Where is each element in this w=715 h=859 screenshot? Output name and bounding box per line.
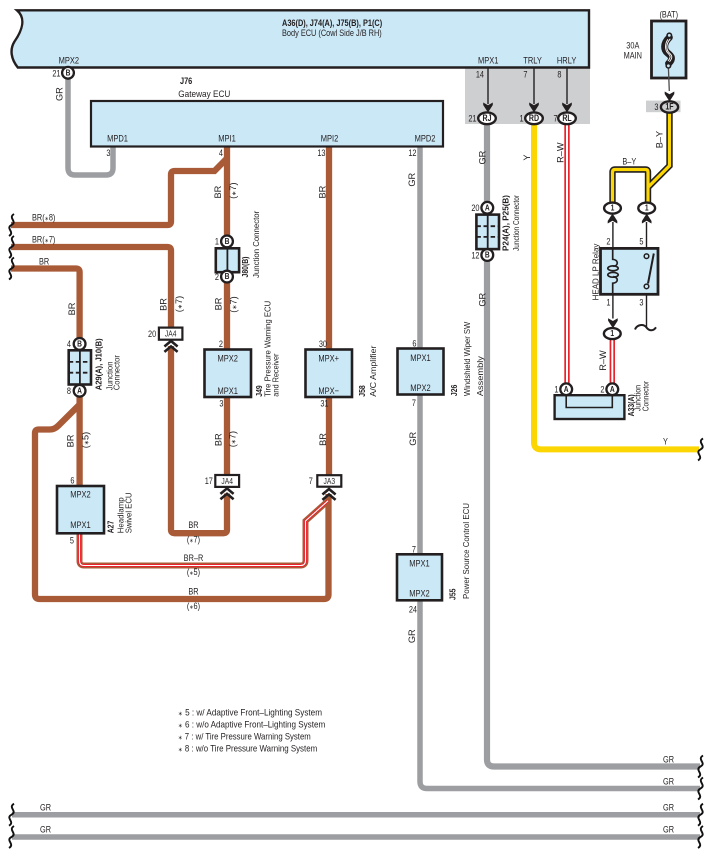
svg-text:7: 7 bbox=[412, 397, 416, 408]
svg-text:∗ 8 : w/o Tire Pressure Warnin: ∗ 8 : w/o Tire Pressure Warning System bbox=[178, 744, 318, 754]
svg-text:8: 8 bbox=[67, 385, 71, 396]
svg-text:BR: BR bbox=[213, 185, 223, 198]
svg-text:TRLY: TRLY bbox=[523, 55, 542, 66]
svg-text:(∗5): (∗5) bbox=[187, 566, 200, 577]
svg-text:BR(∗7): BR(∗7) bbox=[32, 234, 56, 245]
svg-text:A27: A27 bbox=[106, 521, 116, 534]
svg-text:MPX2: MPX2 bbox=[59, 55, 80, 66]
svg-text:6: 6 bbox=[412, 338, 416, 349]
svg-text:3: 3 bbox=[106, 147, 110, 158]
svg-text:A: A bbox=[77, 386, 82, 396]
svg-text:Swivel ECU: Swivel ECU bbox=[124, 492, 134, 533]
svg-text:BR: BR bbox=[66, 434, 76, 447]
svg-text:BR: BR bbox=[214, 433, 224, 446]
svg-text:A: A bbox=[610, 384, 615, 394]
svg-text:A: A bbox=[485, 203, 490, 213]
svg-text:BR: BR bbox=[158, 298, 168, 311]
svg-text:J80(B): J80(B) bbox=[240, 256, 250, 277]
svg-text:7: 7 bbox=[554, 112, 558, 123]
svg-text:JA4: JA4 bbox=[165, 329, 177, 339]
svg-text:MPX2: MPX2 bbox=[217, 353, 238, 364]
svg-text:GR: GR bbox=[55, 87, 65, 101]
svg-text:HRLY: HRLY bbox=[557, 55, 577, 66]
svg-text:24: 24 bbox=[409, 604, 418, 615]
svg-text:MPX1: MPX1 bbox=[70, 519, 91, 530]
svg-text:(∗5): (∗5) bbox=[81, 432, 91, 448]
svg-text:B: B bbox=[225, 236, 230, 246]
svg-text:GR: GR bbox=[663, 775, 674, 786]
svg-text:3: 3 bbox=[639, 296, 643, 307]
svg-text:MPX2: MPX2 bbox=[410, 382, 431, 393]
svg-text:(∗7): (∗7) bbox=[187, 533, 200, 544]
svg-text:Assembly: Assembly bbox=[475, 356, 485, 396]
svg-text:Windshield Wiper SW: Windshield Wiper SW bbox=[462, 321, 472, 396]
svg-text:21: 21 bbox=[468, 112, 477, 123]
svg-text:BR–R: BR–R bbox=[184, 552, 204, 563]
svg-text:13: 13 bbox=[317, 147, 326, 158]
svg-text:(BAT): (BAT) bbox=[659, 9, 678, 20]
svg-text:RJ: RJ bbox=[483, 113, 492, 123]
svg-text:J58: J58 bbox=[357, 385, 367, 397]
svg-text:BR: BR bbox=[214, 297, 224, 310]
svg-text:BR: BR bbox=[318, 433, 328, 446]
svg-text:21: 21 bbox=[52, 68, 61, 79]
svg-text:GR: GR bbox=[663, 801, 674, 812]
svg-text:20: 20 bbox=[148, 328, 157, 339]
svg-text:and Receiver: and Receiver bbox=[271, 353, 281, 397]
svg-text:P24(A), P25(B): P24(A), P25(B) bbox=[501, 195, 511, 251]
svg-text:MPX−: MPX− bbox=[318, 385, 339, 396]
svg-text:MPI2: MPI2 bbox=[321, 133, 339, 144]
svg-text:2: 2 bbox=[215, 271, 219, 282]
svg-text:7: 7 bbox=[309, 475, 313, 486]
svg-text:8: 8 bbox=[557, 69, 561, 80]
svg-text:MPI1: MPI1 bbox=[218, 133, 236, 144]
svg-text:MPX1: MPX1 bbox=[217, 385, 238, 396]
svg-text:BR: BR bbox=[188, 585, 198, 596]
svg-text:GR: GR bbox=[40, 823, 51, 834]
svg-text:MPX2: MPX2 bbox=[70, 489, 91, 500]
svg-text:5: 5 bbox=[639, 235, 643, 246]
svg-text:3: 3 bbox=[654, 101, 658, 112]
svg-text:MPD2: MPD2 bbox=[415, 133, 436, 144]
svg-text:Y: Y bbox=[663, 435, 668, 446]
svg-text:(∗7): (∗7) bbox=[229, 296, 239, 312]
svg-text:B–Y: B–Y bbox=[622, 155, 636, 166]
svg-text:1: 1 bbox=[215, 235, 219, 246]
svg-text:RL: RL bbox=[562, 113, 571, 123]
svg-text:A/C Amplifier: A/C Amplifier bbox=[368, 345, 378, 397]
svg-text:1: 1 bbox=[554, 383, 558, 394]
svg-text:HEAD LP Relay: HEAD LP Relay bbox=[591, 243, 601, 300]
svg-text:(∗6): (∗6) bbox=[187, 600, 200, 611]
svg-text:RD: RD bbox=[529, 113, 539, 123]
svg-text:MAIN: MAIN bbox=[624, 50, 642, 61]
svg-text:GR: GR bbox=[407, 172, 417, 186]
svg-text:∗ 5 : w/ Adaptive Front–Lighti: ∗ 5 : w/ Adaptive Front–Lighting System bbox=[178, 708, 322, 718]
svg-text:BR(∗8): BR(∗8) bbox=[32, 212, 56, 223]
svg-text:(∗7): (∗7) bbox=[228, 182, 238, 198]
svg-text:J55: J55 bbox=[448, 588, 458, 600]
svg-text:7: 7 bbox=[523, 69, 527, 80]
svg-text:R–W: R–W bbox=[598, 350, 608, 371]
svg-text:2: 2 bbox=[600, 383, 604, 394]
svg-text:5: 5 bbox=[70, 534, 74, 545]
svg-text:JA4: JA4 bbox=[221, 476, 233, 486]
svg-text:∗ 7 : w/ Tire Pressure Warning: ∗ 7 : w/ Tire Pressure Warning System bbox=[178, 732, 311, 742]
svg-text:∗ 6 : w/o Adaptive Front–Light: ∗ 6 : w/o Adaptive Front–Lighting System bbox=[178, 720, 326, 730]
svg-text:BR: BR bbox=[318, 185, 328, 198]
svg-text:1: 1 bbox=[520, 112, 524, 123]
svg-text:1F: 1F bbox=[665, 102, 673, 112]
svg-text:MPD1: MPD1 bbox=[107, 133, 128, 144]
svg-text:Connector: Connector bbox=[641, 381, 651, 412]
svg-text:B: B bbox=[77, 339, 82, 349]
svg-text:2: 2 bbox=[606, 235, 610, 246]
svg-text:Connector: Connector bbox=[112, 355, 122, 391]
svg-text:GR: GR bbox=[663, 753, 674, 764]
svg-text:BR: BR bbox=[188, 519, 198, 530]
svg-text:14: 14 bbox=[476, 69, 485, 80]
svg-text:20: 20 bbox=[471, 202, 480, 213]
svg-text:JA3: JA3 bbox=[324, 476, 336, 486]
svg-text:R–W: R–W bbox=[556, 142, 566, 163]
svg-text:12: 12 bbox=[471, 249, 480, 260]
svg-text:GR: GR bbox=[40, 801, 51, 812]
svg-text:6: 6 bbox=[70, 475, 74, 486]
svg-text:1: 1 bbox=[606, 296, 610, 307]
svg-text:A: A bbox=[564, 384, 569, 394]
svg-text:BR: BR bbox=[39, 256, 49, 267]
svg-text:(∗7): (∗7) bbox=[228, 431, 238, 447]
svg-text:4: 4 bbox=[219, 147, 223, 158]
svg-text:2: 2 bbox=[219, 338, 223, 349]
svg-text:MPX2: MPX2 bbox=[409, 588, 430, 599]
svg-text:J76: J76 bbox=[180, 75, 193, 86]
svg-text:Power Source Control ECU: Power Source Control ECU bbox=[461, 503, 471, 599]
svg-text:7: 7 bbox=[412, 544, 416, 555]
svg-text:30: 30 bbox=[319, 338, 328, 349]
svg-text:MPX+: MPX+ bbox=[318, 353, 339, 364]
svg-text:4: 4 bbox=[67, 338, 71, 349]
svg-text:12: 12 bbox=[408, 147, 417, 158]
svg-text:MPX1: MPX1 bbox=[409, 558, 430, 569]
svg-text:B: B bbox=[66, 68, 71, 78]
svg-text:Body ECU (Cowl Side J/B RH): Body ECU (Cowl Side J/B RH) bbox=[282, 27, 382, 38]
svg-text:3: 3 bbox=[219, 397, 223, 408]
svg-text:Gateway ECU: Gateway ECU bbox=[178, 88, 230, 99]
svg-text:B–Y: B–Y bbox=[655, 131, 665, 148]
svg-text:MPX1: MPX1 bbox=[410, 352, 431, 363]
svg-text:Junction Connector: Junction Connector bbox=[251, 210, 261, 278]
svg-text:GR: GR bbox=[478, 292, 488, 306]
svg-text:(∗7): (∗7) bbox=[174, 296, 184, 312]
svg-text:J26: J26 bbox=[449, 384, 459, 396]
svg-text:B: B bbox=[485, 250, 490, 260]
svg-text:B: B bbox=[225, 271, 230, 281]
svg-text:BR: BR bbox=[67, 302, 77, 315]
svg-text:17: 17 bbox=[205, 475, 214, 486]
svg-text:GR: GR bbox=[663, 823, 674, 834]
svg-text:Junction Connector: Junction Connector bbox=[511, 195, 521, 251]
svg-text:GR: GR bbox=[408, 432, 418, 446]
svg-text:31: 31 bbox=[320, 397, 329, 408]
svg-text:GR: GR bbox=[407, 629, 417, 643]
svg-text:GR: GR bbox=[478, 150, 488, 164]
svg-text:Y: Y bbox=[522, 154, 532, 160]
svg-text:MPX1: MPX1 bbox=[478, 55, 499, 66]
svg-text:A29(A), J10(B): A29(A), J10(B) bbox=[94, 338, 104, 390]
